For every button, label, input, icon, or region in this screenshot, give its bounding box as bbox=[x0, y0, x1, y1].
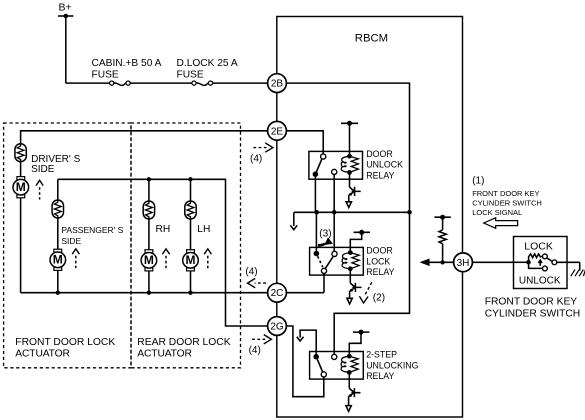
svg-text:FRONT DOOR LOCK: FRONT DOOR LOCK bbox=[15, 337, 115, 348]
svg-text:(4): (4) bbox=[249, 345, 261, 356]
svg-text:CYLINDER SWITCH: CYLINDER SWITCH bbox=[472, 198, 542, 207]
svg-text:2E: 2E bbox=[271, 126, 284, 137]
svg-text:(2): (2) bbox=[373, 292, 385, 303]
svg-text:LH: LH bbox=[197, 224, 210, 235]
svg-text:3H: 3H bbox=[457, 258, 470, 269]
svg-text:RELAY: RELAY bbox=[366, 170, 394, 180]
svg-text:FUSE: FUSE bbox=[92, 70, 119, 81]
svg-text:REAR DOOR LOCK: REAR DOOR LOCK bbox=[137, 337, 230, 348]
svg-text:PASSENGER' S: PASSENGER' S bbox=[61, 225, 123, 235]
svg-text:2C: 2C bbox=[271, 288, 284, 299]
svg-text:ACTUATOR: ACTUATOR bbox=[15, 348, 69, 359]
svg-text:FUSE: FUSE bbox=[177, 70, 204, 81]
svg-text:FRONT DOOR KEY: FRONT DOOR KEY bbox=[485, 297, 578, 308]
svg-text:CYLINDER SWITCH: CYLINDER SWITCH bbox=[485, 308, 581, 319]
svg-text:LOCK: LOCK bbox=[524, 240, 553, 252]
svg-text:LOCK SIGNAL: LOCK SIGNAL bbox=[472, 208, 522, 217]
svg-text:B+: B+ bbox=[59, 2, 72, 14]
svg-text:DOOR: DOOR bbox=[366, 149, 392, 159]
svg-text:2B: 2B bbox=[271, 79, 284, 90]
svg-text:UNLOCK: UNLOCK bbox=[366, 160, 403, 170]
svg-text:UNLOCK: UNLOCK bbox=[519, 275, 561, 286]
svg-text:D.LOCK 25 A: D.LOCK 25 A bbox=[177, 58, 238, 69]
svg-text:UNLOCKING: UNLOCKING bbox=[366, 360, 418, 370]
svg-text:DOOR: DOOR bbox=[366, 246, 392, 256]
svg-text:2G: 2G bbox=[270, 322, 284, 333]
svg-text:(3): (3) bbox=[319, 228, 331, 239]
svg-text:2-STEP: 2-STEP bbox=[366, 350, 397, 360]
svg-text:ACTUATOR: ACTUATOR bbox=[137, 348, 191, 359]
svg-text:RBCM: RBCM bbox=[355, 32, 388, 44]
svg-text:SIDE: SIDE bbox=[31, 164, 55, 175]
svg-text:RELAY: RELAY bbox=[366, 267, 394, 277]
svg-text:SIDE: SIDE bbox=[61, 236, 81, 246]
svg-text:(1): (1) bbox=[472, 176, 484, 187]
svg-text:RH: RH bbox=[156, 224, 171, 235]
svg-text:CABIN.+B 50 A: CABIN.+B 50 A bbox=[92, 58, 162, 69]
svg-text:FRONT DOOR KEY: FRONT DOOR KEY bbox=[472, 189, 539, 198]
svg-text:(4): (4) bbox=[245, 266, 257, 277]
svg-text:LOCK: LOCK bbox=[366, 256, 390, 266]
svg-text:(4): (4) bbox=[250, 153, 262, 164]
svg-text:RELAY: RELAY bbox=[366, 371, 394, 381]
